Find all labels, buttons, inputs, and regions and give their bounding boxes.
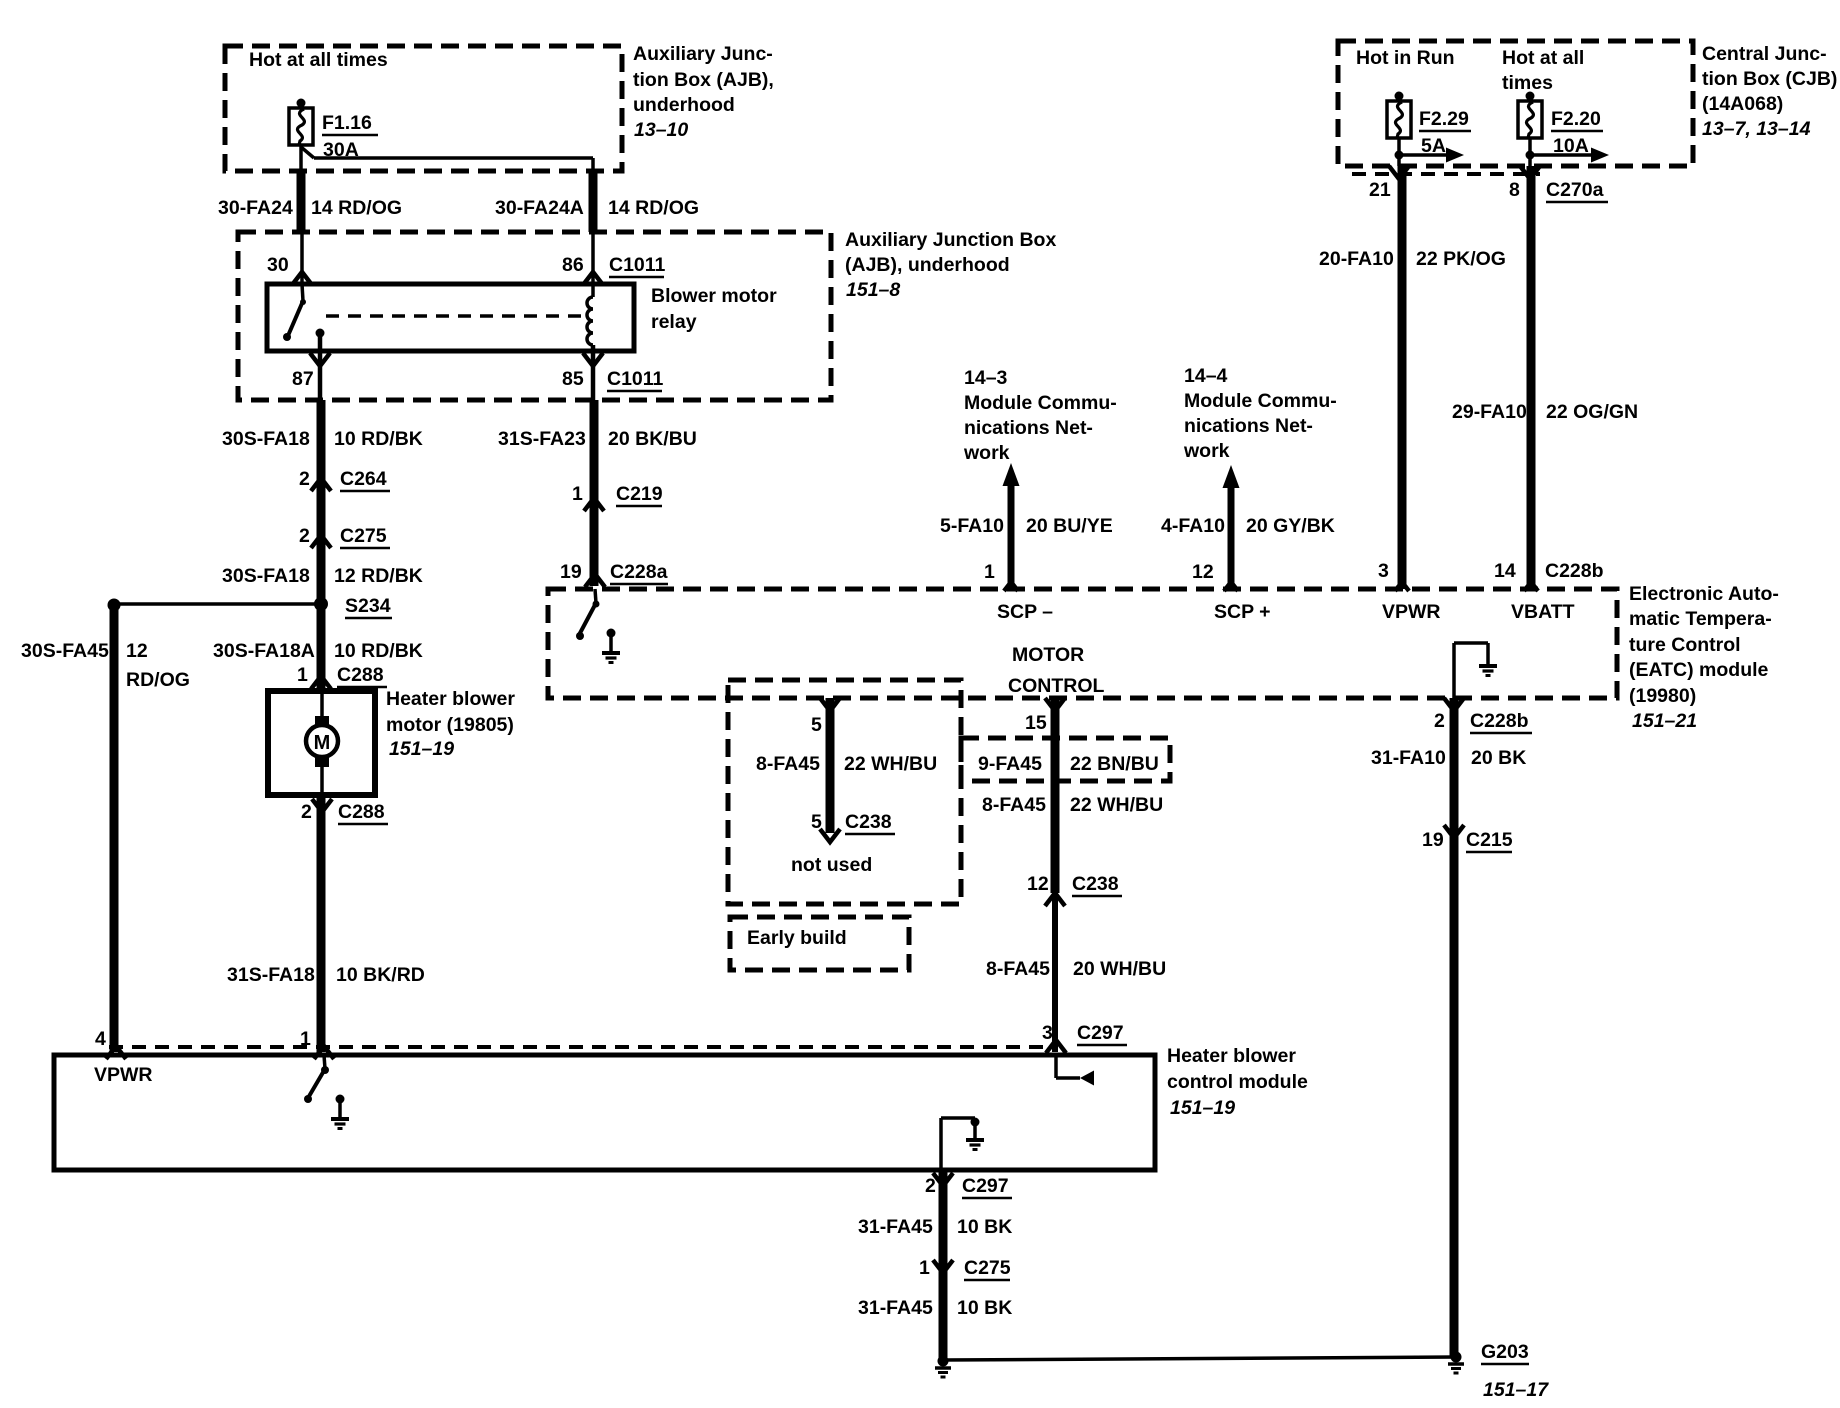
svg-text:C275: C275 — [340, 525, 387, 547]
svg-text:motor (19805): motor (19805) — [386, 714, 514, 736]
svg-text:151–17: 151–17 — [1483, 1379, 1549, 1401]
svg-text:31-FA10: 31-FA10 — [1371, 747, 1446, 769]
svg-text:8-FA45: 8-FA45 — [986, 958, 1050, 980]
svg-text:Module Commu-: Module Commu- — [964, 392, 1117, 414]
svg-text:Heater blower: Heater blower — [386, 688, 515, 710]
svg-text:underhood: underhood — [633, 94, 735, 116]
svg-text:19: 19 — [560, 561, 582, 583]
svg-text:22 PK/OG: 22 PK/OG — [1416, 248, 1506, 270]
svg-text:14–4: 14–4 — [1184, 365, 1228, 387]
svg-text:12: 12 — [126, 640, 148, 662]
svg-text:RD/OG: RD/OG — [126, 669, 190, 691]
svg-text:22 WH/BU: 22 WH/BU — [844, 753, 937, 775]
svg-text:20 BK/BU: 20 BK/BU — [608, 428, 697, 450]
svg-text:MOTOR: MOTOR — [1012, 644, 1084, 666]
svg-text:1: 1 — [919, 1257, 930, 1279]
svg-text:C238: C238 — [845, 811, 892, 833]
svg-text:20-FA10: 20-FA10 — [1319, 248, 1394, 270]
svg-text:C1011: C1011 — [607, 368, 664, 390]
svg-text:5: 5 — [811, 714, 822, 736]
svg-text:30S-FA18: 30S-FA18 — [222, 565, 310, 587]
svg-text:4: 4 — [95, 1028, 106, 1050]
svg-text:1: 1 — [297, 664, 308, 686]
svg-text:C1011: C1011 — [609, 254, 666, 276]
svg-text:20 BK: 20 BK — [1471, 747, 1526, 769]
svg-text:13–10: 13–10 — [634, 119, 688, 141]
svg-text:VPWR: VPWR — [94, 1064, 153, 1086]
svg-text:10 BK/RD: 10 BK/RD — [336, 964, 425, 986]
svg-text:SCP +: SCP + — [1214, 601, 1271, 623]
svg-text:not used: not used — [791, 854, 872, 876]
svg-text:C297: C297 — [1077, 1022, 1124, 1044]
svg-text:C228b: C228b — [1545, 560, 1604, 582]
svg-text:matic Tempera-: matic Tempera- — [1629, 608, 1772, 630]
svg-text:30: 30 — [267, 254, 289, 276]
svg-text:20 GY/BK: 20 GY/BK — [1246, 515, 1335, 537]
svg-text:C275: C275 — [964, 1257, 1011, 1279]
svg-text:151–8: 151–8 — [846, 279, 900, 301]
svg-text:31S-FA18: 31S-FA18 — [227, 964, 315, 986]
svg-text:13–7, 13–14: 13–7, 13–14 — [1702, 118, 1811, 140]
svg-text:20 WH/BU: 20 WH/BU — [1073, 958, 1166, 980]
svg-text:31S-FA23: 31S-FA23 — [498, 428, 586, 450]
svg-text:8-FA45: 8-FA45 — [982, 794, 1046, 816]
svg-text:Auxiliary Junc-: Auxiliary Junc- — [633, 43, 773, 65]
svg-text:86: 86 — [562, 254, 584, 276]
svg-text:151–19: 151–19 — [1170, 1097, 1235, 1119]
svg-text:19: 19 — [1422, 829, 1444, 851]
svg-text:Auxiliary Junction Box: Auxiliary Junction Box — [845, 229, 1056, 251]
svg-text:C238: C238 — [1072, 873, 1119, 895]
svg-text:2: 2 — [299, 468, 310, 490]
svg-text:work: work — [963, 442, 1010, 464]
svg-text:CONTROL: CONTROL — [1008, 675, 1104, 697]
svg-text:Hot in Run: Hot in Run — [1356, 47, 1455, 69]
svg-text:C264: C264 — [340, 468, 387, 490]
svg-text:30S-FA18: 30S-FA18 — [222, 428, 310, 450]
svg-text:14 RD/OG: 14 RD/OG — [608, 197, 699, 219]
svg-text:times: times — [1502, 72, 1553, 94]
svg-text:15: 15 — [1025, 712, 1047, 734]
svg-text:tion Box (AJB),: tion Box (AJB), — [633, 69, 774, 91]
svg-text:Early build: Early build — [747, 927, 847, 949]
svg-text:151–21: 151–21 — [1632, 710, 1697, 732]
svg-text:8: 8 — [1509, 179, 1520, 201]
svg-text:C297: C297 — [962, 1175, 1009, 1197]
svg-text:31-FA45: 31-FA45 — [858, 1297, 933, 1319]
svg-text:2: 2 — [301, 801, 312, 823]
svg-text:F2.20: F2.20 — [1551, 108, 1601, 130]
svg-text:relay: relay — [651, 311, 697, 333]
svg-text:SCP –: SCP – — [997, 601, 1053, 623]
svg-text:tion Box (CJB): tion Box (CJB) — [1702, 68, 1837, 90]
svg-text:87: 87 — [292, 368, 314, 390]
svg-text:C215: C215 — [1466, 829, 1513, 851]
svg-text:5-FA10: 5-FA10 — [940, 515, 1004, 537]
svg-text:(AJB), underhood: (AJB), underhood — [845, 254, 1010, 276]
svg-text:C288: C288 — [338, 801, 385, 823]
svg-text:8-FA45: 8-FA45 — [756, 753, 820, 775]
svg-text:Blower motor: Blower motor — [651, 285, 777, 307]
svg-text:9-FA45: 9-FA45 — [978, 753, 1042, 775]
svg-text:Hot at all: Hot at all — [1502, 47, 1584, 69]
svg-text:30A: 30A — [323, 139, 359, 161]
svg-text:4-FA10: 4-FA10 — [1161, 515, 1225, 537]
svg-text:(19980): (19980) — [1629, 685, 1696, 707]
svg-text:14: 14 — [1494, 560, 1516, 582]
svg-text:Module Commu-: Module Commu- — [1184, 390, 1337, 412]
svg-text:10 BK: 10 BK — [957, 1216, 1012, 1238]
svg-text:Electronic Auto-: Electronic Auto- — [1629, 583, 1779, 605]
svg-text:30S-FA45: 30S-FA45 — [21, 640, 109, 662]
svg-text:21: 21 — [1369, 179, 1391, 201]
svg-text:151–19: 151–19 — [389, 738, 454, 760]
svg-text:10 RD/BK: 10 RD/BK — [334, 640, 423, 662]
svg-text:S234: S234 — [345, 595, 391, 617]
svg-text:C288: C288 — [337, 664, 384, 686]
svg-text:29-FA10: 29-FA10 — [1452, 401, 1527, 423]
svg-text:2: 2 — [299, 525, 310, 547]
svg-text:Hot at all times: Hot at all times — [249, 49, 388, 71]
svg-text:VPWR: VPWR — [1382, 601, 1441, 623]
svg-text:C270a: C270a — [1546, 179, 1604, 201]
svg-text:1: 1 — [572, 483, 583, 505]
svg-text:12: 12 — [1027, 873, 1049, 895]
svg-text:C228b: C228b — [1470, 710, 1529, 732]
svg-text:5: 5 — [811, 811, 822, 833]
svg-text:3: 3 — [1378, 560, 1389, 582]
svg-text:nications Net-: nications Net- — [964, 417, 1093, 439]
svg-text:F2.29: F2.29 — [1419, 108, 1469, 130]
svg-text:31-FA45: 31-FA45 — [858, 1216, 933, 1238]
svg-text:(14A068): (14A068) — [1702, 93, 1783, 115]
svg-text:C228a: C228a — [610, 561, 668, 583]
svg-text:F1.16: F1.16 — [322, 112, 372, 134]
svg-text:5A: 5A — [1421, 135, 1446, 157]
svg-text:M: M — [314, 732, 331, 754]
svg-text:10 BK: 10 BK — [957, 1297, 1012, 1319]
svg-text:C219: C219 — [616, 483, 663, 505]
svg-text:2: 2 — [925, 1175, 936, 1197]
svg-text:12: 12 — [1192, 561, 1214, 583]
svg-text:work: work — [1183, 440, 1230, 462]
svg-text:Heater blower: Heater blower — [1167, 1045, 1296, 1067]
svg-text:3: 3 — [1042, 1022, 1053, 1044]
svg-text:22 BN/BU: 22 BN/BU — [1070, 753, 1159, 775]
svg-text:nications Net-: nications Net- — [1184, 415, 1313, 437]
svg-text:22 WH/BU: 22 WH/BU — [1070, 794, 1163, 816]
svg-text:10A: 10A — [1553, 135, 1589, 157]
svg-text:12 RD/BK: 12 RD/BK — [334, 565, 423, 587]
svg-text:G203: G203 — [1481, 1341, 1529, 1363]
svg-text:ture Control: ture Control — [1629, 634, 1741, 656]
svg-text:control module: control module — [1167, 1071, 1308, 1093]
svg-text:Central Junc-: Central Junc- — [1702, 43, 1827, 65]
svg-text:VBATT: VBATT — [1511, 601, 1575, 623]
svg-text:(EATC) module: (EATC) module — [1629, 659, 1769, 681]
svg-text:14–3: 14–3 — [964, 367, 1008, 389]
svg-text:85: 85 — [562, 368, 584, 390]
svg-text:10 RD/BK: 10 RD/BK — [334, 428, 423, 450]
svg-text:2: 2 — [1434, 710, 1445, 732]
svg-text:30-FA24A: 30-FA24A — [495, 197, 584, 219]
svg-text:30S-FA18A: 30S-FA18A — [213, 640, 315, 662]
svg-text:1: 1 — [300, 1028, 311, 1050]
svg-text:20 BU/YE: 20 BU/YE — [1026, 515, 1113, 537]
svg-text:30-FA24: 30-FA24 — [218, 197, 293, 219]
svg-text:1: 1 — [984, 561, 995, 583]
svg-text:22 OG/GN: 22 OG/GN — [1546, 401, 1638, 423]
svg-text:14 RD/OG: 14 RD/OG — [311, 197, 402, 219]
